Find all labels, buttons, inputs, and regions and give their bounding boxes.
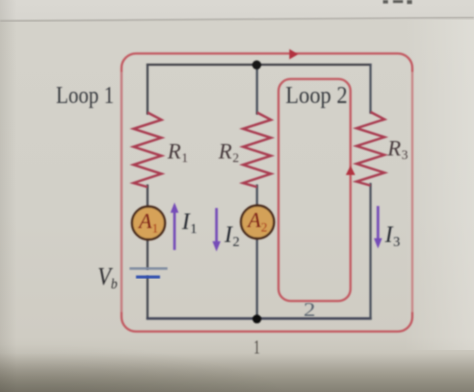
svg-text:R1: R1 bbox=[167, 139, 188, 166]
wire right branch upper bbox=[369, 65, 371, 113]
svg-text:I2: I2 bbox=[224, 222, 240, 250]
ammeter A2 bbox=[241, 206, 274, 239]
wire left side of loop 1 (defocus tint) bbox=[120, 72, 123, 312]
svg-text:1: 1 bbox=[254, 337, 261, 359]
wire R3 to bottom bbox=[369, 184, 371, 319]
svg-text:2: 2 bbox=[304, 299, 316, 321]
svg-text:R3: R3 bbox=[387, 136, 408, 163]
wire middle branch upper bbox=[256, 65, 258, 114]
wire A2 to bottom node bbox=[256, 238, 258, 319]
wire R2 to A2 bbox=[256, 186, 258, 207]
wire R1 to A1 bbox=[146, 186, 148, 208]
wire right side of loop 1 (defocus tint) bbox=[411, 72, 414, 312]
node top (junction dot) bbox=[252, 60, 261, 69]
current arrow I3 bbox=[377, 206, 380, 240]
wire bottom horizontal bbox=[148, 317, 371, 319]
svg-text:I3: I3 bbox=[384, 222, 400, 250]
page rule line at top of photo bbox=[0, 18, 474, 22]
current arrow I2 bbox=[215, 208, 218, 243]
svg-text:R2: R2 bbox=[218, 139, 239, 166]
resistor R1 bbox=[134, 113, 162, 188]
wire left branch upper bbox=[146, 65, 148, 114]
resistor R3 bbox=[357, 112, 385, 186]
svg-text:Loop 2: Loop 2 bbox=[286, 83, 348, 109]
node bottom (junction dot) bbox=[253, 315, 262, 324]
loop 2 direction arrow bbox=[346, 166, 355, 176]
battery Vb bottom plate bbox=[136, 276, 160, 279]
battery Vb top plate bbox=[130, 267, 168, 269]
svg-text:Vb: Vb bbox=[98, 264, 118, 293]
current arrow I1 bbox=[173, 211, 176, 250]
wire A1 to battery bbox=[146, 239, 148, 269]
ammeter A1 bbox=[132, 207, 165, 240]
loop 2 inner red loop path bbox=[279, 79, 351, 301]
svg-text:I1: I1 bbox=[181, 209, 197, 237]
loop 1 direction arrow bbox=[289, 49, 298, 59]
wire top horizontal bbox=[148, 64, 371, 66]
loop 1 outer red loop path bbox=[122, 54, 413, 332]
svg-text:Loop 1: Loop 1 bbox=[56, 83, 114, 109]
cropped text fragment top right bbox=[383, 0, 412, 4]
resistor R2 bbox=[243, 113, 271, 188]
wire battery to bottom bbox=[146, 277, 148, 319]
